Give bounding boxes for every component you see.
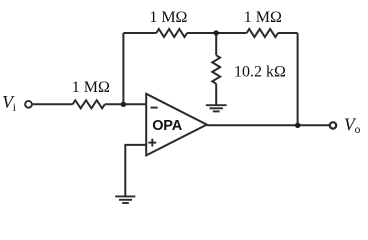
wire feedback riser	[122, 33, 124, 104]
resistor R3 1 MΩ	[247, 29, 278, 37]
svg-text:o: o	[355, 124, 361, 136]
op-amp U1	[146, 94, 207, 156]
wire input terminal to R1	[33, 103, 73, 105]
resistor R2 1 MΩ	[156, 29, 187, 37]
wire R4 to ground	[215, 84, 217, 105]
wire R1 to inverting node	[105, 103, 146, 105]
label Vo	[344, 115, 361, 136]
output terminal Vo	[330, 122, 336, 128]
svg-text:1 MΩ: 1 MΩ	[244, 9, 282, 26]
wire R3 to right riser	[278, 32, 298, 34]
input terminal Vi	[25, 101, 32, 108]
resistor R4 10.2 kΩ	[212, 55, 220, 83]
svg-text:OPA: OPA	[152, 118, 182, 134]
wire node B to R4	[215, 33, 217, 55]
ground G1	[206, 105, 227, 111]
wire right riser to output	[297, 33, 299, 125]
svg-text:1 MΩ: 1 MΩ	[72, 79, 110, 96]
label Vi	[2, 92, 16, 114]
wire non-inverting input to ground	[125, 145, 146, 196]
svg-text:i: i	[13, 102, 16, 114]
node B divider tap	[214, 30, 219, 35]
op-amp U1 non-inverting pin label +	[148, 139, 156, 147]
op-amp U1 inverting pin label -	[151, 107, 158, 109]
svg-text:10.2 kΩ: 10.2 kΩ	[234, 64, 286, 81]
node C output junction	[295, 123, 300, 128]
resistor R1 1 MΩ	[73, 100, 105, 108]
wire op-amp output	[207, 124, 329, 126]
ground G2	[115, 196, 135, 203]
wire top rail left	[123, 32, 156, 34]
svg-text:1 MΩ: 1 MΩ	[149, 9, 187, 26]
node A inverting input junction	[121, 102, 126, 107]
wire R2 to node B	[187, 32, 247, 34]
